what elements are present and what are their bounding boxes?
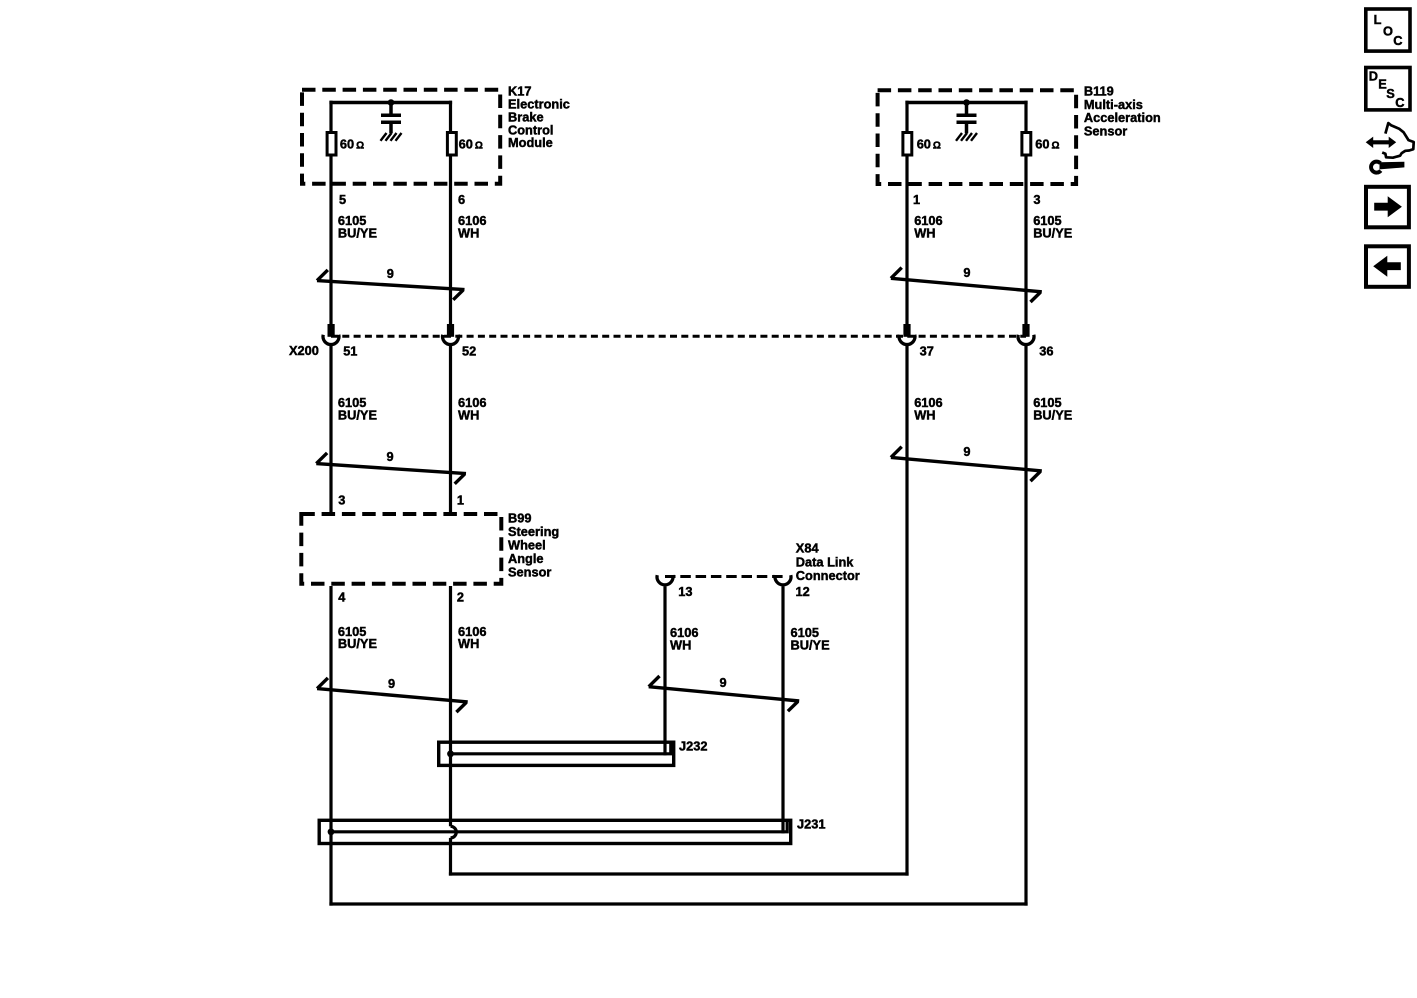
svg-text:J232: J232 xyxy=(679,739,707,754)
svg-text:BU/YE: BU/YE xyxy=(1033,225,1073,240)
svg-text:4: 4 xyxy=(338,589,346,604)
svg-text:WH: WH xyxy=(458,225,479,240)
icon button next (right arrow) xyxy=(1366,187,1409,228)
svg-text:WH: WH xyxy=(458,636,479,651)
capacitor C2 (B119 internal) xyxy=(957,103,977,134)
wire: B99 pin4 lead down to J231 and bottom bus xyxy=(329,586,332,906)
icon button LOC xyxy=(1366,9,1410,51)
svg-text:WH: WH xyxy=(914,225,935,240)
splice J231 internal bus with hook xyxy=(331,820,787,832)
resistor R2 60ohm (K17 right) xyxy=(447,133,456,156)
svg-text:9: 9 xyxy=(387,266,394,281)
svg-text:Sensor: Sensor xyxy=(1084,124,1127,139)
icon button back (left arrow) xyxy=(1366,246,1409,286)
node: K17 capacitor junction dot xyxy=(388,99,395,106)
svg-text:1: 1 xyxy=(457,493,464,508)
ground (B119 chassis ground hatches) xyxy=(956,133,977,141)
svg-text:37: 37 xyxy=(920,343,934,358)
svg-text:BU/YE: BU/YE xyxy=(338,408,378,423)
svg-text:O: O xyxy=(1383,23,1393,38)
wire: B119 pin3 lead down to X200 xyxy=(1024,157,1027,326)
module K17 label xyxy=(508,84,570,151)
svg-text:60Ω: 60Ω xyxy=(340,137,364,152)
wire label 6106 WH (X84 pin13) xyxy=(670,625,698,652)
splice J232 box xyxy=(439,742,674,765)
wire: B119 internal top bus xyxy=(905,101,1027,105)
ground (K17 chassis ground hatches) xyxy=(381,133,402,141)
node: B119 capacitor junction dot xyxy=(963,99,970,106)
resistor R4 60ohm (B119 right) xyxy=(1022,133,1031,156)
svg-text:L: L xyxy=(1374,12,1382,27)
wire: pin2 wire below J231 to bottom bus xyxy=(449,838,452,876)
svg-text:2: 2 xyxy=(457,589,464,604)
wire: K17 pin5 branch upper xyxy=(329,101,332,132)
wire: B119 pin3 branch upper xyxy=(1024,101,1027,132)
wire: B119 pin36 lead down to bottom bus xyxy=(1024,346,1027,906)
svg-text:S: S xyxy=(1386,86,1395,101)
twisted pair symbol (bottom right pair) xyxy=(649,676,800,711)
wire label 6105 BU/YE (X200 to B99) xyxy=(338,395,378,422)
wire: bottom bus BU/YE (J231 net to B119 pin36) xyxy=(329,902,1027,905)
svg-text:BU/YE: BU/YE xyxy=(338,636,378,651)
svg-text:60Ω: 60Ω xyxy=(1035,137,1059,152)
svg-text:1: 1 xyxy=(913,192,920,207)
svg-text:51: 51 xyxy=(343,344,357,359)
twisted pair symbol (B119 below X200) xyxy=(891,447,1042,481)
svg-text:9: 9 xyxy=(719,675,726,690)
wire: B99 pin2 lead down to J232 xyxy=(449,586,452,826)
wire: B119 pin37 lead down to bottom bus xyxy=(905,346,908,876)
svg-text:60Ω: 60Ω xyxy=(459,137,483,152)
node: J232 splice dot xyxy=(447,750,454,757)
svg-text:13: 13 xyxy=(678,584,692,599)
capacitor C1 (K17 internal) xyxy=(381,103,401,134)
svg-text:BU/YE: BU/YE xyxy=(338,225,378,240)
connector X84 label xyxy=(796,541,860,583)
module B119 label xyxy=(1084,84,1161,139)
wire: K17 pin6 branch upper xyxy=(449,101,452,132)
svg-text:WH: WH xyxy=(914,408,935,423)
connector X200 pin 52 terminal xyxy=(443,324,459,514)
node: J231 splice dot xyxy=(328,828,335,835)
wire label 6106 WH (X200 to B99) xyxy=(458,395,486,422)
wire label 6105 BU/YE (B99 pin4) xyxy=(338,624,378,651)
wire: B119 pin1 branch upper xyxy=(905,101,908,132)
svg-text:Sensor: Sensor xyxy=(508,565,551,580)
svg-text:9: 9 xyxy=(963,265,970,280)
svg-text:36: 36 xyxy=(1039,343,1053,358)
splice J231 box xyxy=(319,820,791,843)
svg-text:C: C xyxy=(1393,33,1402,48)
svg-text:D: D xyxy=(1369,68,1378,83)
wire: bottom bus WH (J232 net to B119 pin37) xyxy=(449,872,909,875)
svg-text:9: 9 xyxy=(386,449,393,464)
svg-text:X200: X200 xyxy=(289,343,319,358)
module K17 dashed box xyxy=(302,90,500,184)
wire: K17 pin5 lead down to X200 xyxy=(329,157,332,326)
wire label 6105 BU/YE (K17) xyxy=(338,213,378,240)
connector X84 dashed line xyxy=(665,575,783,578)
wire: K17 internal top bus xyxy=(329,101,452,105)
svg-text:Connector: Connector xyxy=(796,568,860,583)
svg-text:6: 6 xyxy=(458,192,465,207)
connector X200 pin 51 terminal xyxy=(323,324,339,514)
module B99 dashed box xyxy=(301,514,501,584)
wire label 6105 BU/YE (X84 pin12) xyxy=(791,625,831,652)
svg-text:9: 9 xyxy=(388,676,395,691)
wire: B119 pin1 lead down to X200 xyxy=(905,157,908,326)
svg-text:5: 5 xyxy=(339,192,346,207)
twisted pair symbol (bottom left pair) xyxy=(317,678,468,712)
svg-text:3: 3 xyxy=(338,493,345,508)
resistor R1 60ohm (K17 left) xyxy=(327,133,336,156)
connector X200 pin 36 terminal xyxy=(1018,324,1034,345)
connector X200 pin 37 terminal xyxy=(899,324,915,345)
wire label 6106 WH (K17) xyxy=(458,213,486,240)
wire label 6105 BU/YE (B119 below X200) xyxy=(1033,395,1073,422)
icon: schematic navigation (double arrow, outline, wrench) xyxy=(1366,123,1414,173)
icon button DESC xyxy=(1366,68,1410,111)
wire: K17 pin6 lead down to X200 xyxy=(449,157,452,326)
twisted pair symbol (below X200 left) xyxy=(316,453,466,484)
splice J232 internal bus with hook xyxy=(451,742,671,754)
svg-text:12: 12 xyxy=(796,584,810,599)
twisted pair symbol (B119 pair above X200) xyxy=(891,268,1042,302)
svg-text:60Ω: 60Ω xyxy=(917,137,941,152)
connector X84 pin 12 terminal xyxy=(775,575,791,833)
wire label 6105 BU/YE (B119) xyxy=(1033,213,1073,240)
svg-text:9: 9 xyxy=(963,444,970,459)
wire hop: pin2 wire jumps J231 bus xyxy=(451,826,457,838)
svg-text:Module: Module xyxy=(508,135,553,150)
svg-text:3: 3 xyxy=(1033,192,1040,207)
module B99 label xyxy=(508,511,559,580)
resistor R3 60ohm (B119 left) xyxy=(903,133,912,156)
svg-text:BU/YE: BU/YE xyxy=(791,637,831,652)
module B119 dashed box xyxy=(878,90,1077,184)
svg-text:52: 52 xyxy=(462,344,476,359)
wire label 6106 WH (B119) xyxy=(914,213,942,240)
twisted pair symbol (K17 pair) xyxy=(317,270,465,300)
wire label 6106 WH (B99 pin2) xyxy=(458,624,486,651)
connector X84 pin 13 terminal xyxy=(657,575,673,755)
svg-text:C: C xyxy=(1395,95,1404,110)
svg-text:WH: WH xyxy=(458,408,479,423)
svg-text:J231: J231 xyxy=(797,817,825,832)
svg-text:BU/YE: BU/YE xyxy=(1033,408,1073,423)
connector X200 dashed line xyxy=(331,335,1026,338)
svg-text:WH: WH xyxy=(670,637,691,652)
wire label 6106 WH (B119 below X200) xyxy=(914,395,942,422)
